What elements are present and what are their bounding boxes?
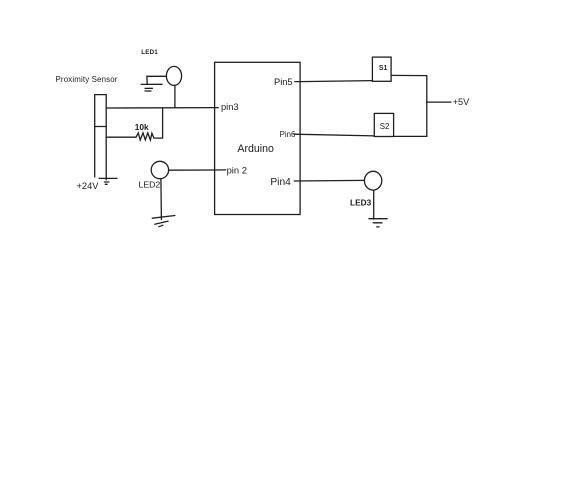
svg-text:10k: 10k	[135, 122, 149, 132]
svg-text:+24V: +24V	[77, 181, 100, 191]
svg-text:LED3: LED3	[350, 197, 372, 207]
LED2 lamp circle	[151, 161, 168, 178]
wire S1 to +5V bus	[391, 74, 427, 76]
svg-text:S2: S2	[380, 122, 390, 131]
wire pin2 stub into box	[215, 169, 226, 171]
ground (LED3)	[369, 219, 387, 227]
+5V bus vertical	[426, 76, 428, 137]
wire LED1 anode drop to pin3 net	[174, 85, 176, 107]
wire S2 to +5V bus	[394, 135, 427, 137]
ground (sensor return, near +24V)	[99, 178, 117, 184]
wire pin3 net down to resistor right end	[162, 108, 164, 138]
wire sensor output to Arduino pin3	[106, 107, 218, 109]
svg-text:LED1: LED1	[141, 49, 158, 56]
svg-text:S1: S1	[379, 65, 388, 72]
switch S2 box	[374, 113, 393, 136]
wire sensor to resistor left end	[106, 136, 136, 138]
proximity sensor internal divider	[95, 126, 107, 128]
Arduino U1 box	[215, 62, 301, 214]
wire Pin5 to switch S1	[295, 81, 373, 82]
svg-text:+5V: +5V	[453, 97, 470, 107]
svg-text:pin3: pin3	[221, 102, 239, 112]
wire LED2 cathode drop	[160, 179, 163, 220]
svg-text:Pin5: Pin5	[274, 77, 293, 87]
wire Pin4 to LED3	[294, 179, 364, 182]
LED1 lamp circle	[166, 66, 181, 85]
resistor R1 10k	[136, 133, 163, 140]
LED3 lamp circle	[364, 171, 381, 190]
ground (LED1)	[141, 84, 162, 91]
ground (LED2, slanted)	[152, 216, 175, 227]
svg-text:Arduino: Arduino	[237, 143, 274, 155]
svg-text:pin 2: pin 2	[227, 164, 247, 175]
wire LED2 to pin2	[169, 169, 215, 171]
proximity sensor PS1 body	[95, 95, 107, 180]
wire LED3 cathode drop	[373, 190, 375, 219]
switch S1 box	[372, 57, 391, 81]
svg-text:LED2: LED2	[139, 180, 161, 190]
svg-text:Proximity Sensor: Proximity Sensor	[56, 75, 118, 84]
wire +5V tap	[427, 101, 451, 103]
svg-text:Pin4: Pin4	[270, 177, 291, 188]
wire Pin6 to switch S2	[294, 134, 374, 136]
svg-text:Pin6: Pin6	[280, 130, 296, 139]
wire LED1 cathode to ground	[147, 76, 167, 84]
